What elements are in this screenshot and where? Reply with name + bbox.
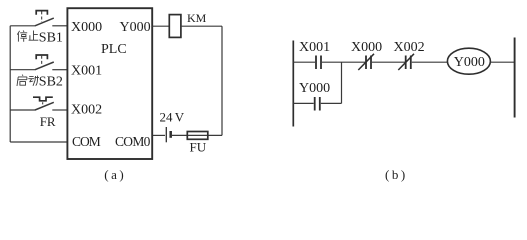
wire Y000 to KM coil bbox=[153, 25, 170, 27]
push button SB2 actuator bbox=[36, 55, 47, 66]
svg-text:X000: X000 bbox=[71, 20, 102, 35]
start button SB2 contact bbox=[10, 62, 67, 70]
wire KM to right drop bbox=[181, 25, 222, 27]
wire battery to fuse bbox=[172, 134, 222, 136]
wire X000 to X002 bbox=[372, 61, 405, 63]
left common bus wire bbox=[9, 26, 11, 142]
svg-text:X002: X002 bbox=[394, 40, 425, 55]
svg-text:V: V bbox=[175, 110, 185, 125]
overload relay FR contact bbox=[10, 102, 67, 110]
contact X001 bbox=[316, 56, 321, 70]
svg-text:X002: X002 bbox=[71, 102, 102, 117]
svg-text:X000: X000 bbox=[351, 40, 382, 55]
wire X002 to coil bbox=[412, 61, 448, 63]
启 bbox=[17, 75, 27, 86]
COM bottom wire bbox=[10, 141, 67, 143]
battery 24V bbox=[166, 127, 170, 142]
branch wire from rail bbox=[293, 102, 313, 104]
wire coil to right rail bbox=[491, 61, 515, 63]
svg-text:24: 24 bbox=[160, 110, 174, 125]
push button SB1 actuator bbox=[36, 11, 47, 22]
止 bbox=[29, 31, 39, 41]
svg-text:PLC: PLC bbox=[101, 42, 127, 57]
ladder left rail bbox=[292, 41, 294, 127]
svg-text:FR: FR bbox=[40, 114, 56, 129]
contact X000 normally closed bbox=[358, 54, 374, 70]
svg-text:Y000: Y000 bbox=[299, 81, 330, 96]
svg-text:SB1: SB1 bbox=[39, 30, 63, 45]
contact X002 normally closed bbox=[398, 54, 414, 70]
svg-text:Y000: Y000 bbox=[454, 55, 485, 70]
rung wire to X001 bbox=[293, 61, 315, 63]
contactor coil KM bbox=[169, 15, 181, 38]
svg-text:KM: KM bbox=[187, 11, 207, 25]
动 bbox=[28, 76, 39, 86]
svg-text:(b): (b) bbox=[385, 167, 408, 182]
svg-text:COM: COM bbox=[72, 134, 101, 149]
svg-text:X001: X001 bbox=[71, 63, 102, 78]
svg-text:Y000: Y000 bbox=[120, 20, 151, 35]
stop button SB1 contact bbox=[10, 18, 67, 26]
ladder right rail bbox=[514, 38, 516, 118]
branch junction vertical bbox=[341, 62, 343, 103]
thermal relay FR actuator bbox=[33, 97, 53, 107]
wire X001 to X000 bbox=[322, 61, 365, 63]
svg-text:COM0: COM0 bbox=[115, 134, 151, 149]
right drop wire bbox=[221, 26, 223, 135]
branch wire to junction bbox=[321, 102, 342, 104]
svg-text:(a): (a) bbox=[104, 167, 126, 182]
svg-text:SB2: SB2 bbox=[39, 74, 63, 89]
PLC box U1 bbox=[67, 8, 152, 159]
wire COM0 to battery bbox=[153, 134, 166, 136]
svg-text:X001: X001 bbox=[299, 40, 330, 55]
label 启动SB2 bbox=[17, 74, 63, 89]
output coil Y000 bbox=[447, 48, 490, 74]
fuse FU bbox=[187, 132, 208, 140]
svg-text:FU: FU bbox=[190, 140, 207, 155]
label 停止SB1 bbox=[17, 30, 63, 45]
停 bbox=[17, 30, 27, 41]
contact Y000 seal-in bbox=[315, 97, 320, 111]
